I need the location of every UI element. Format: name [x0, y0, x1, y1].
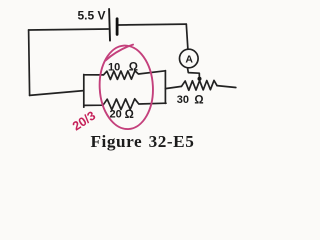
resistor R1 10 ohm (top branch) [84, 71, 165, 80]
paper background [0, 0, 270, 160]
wire 30-ohm tail [217, 86, 236, 88]
svg-text:5.5 V: 5.5 V [78, 9, 106, 23]
wire right lead from box [165, 86, 181, 88]
wire left lead to box [30, 91, 84, 96]
annotation pink tail crossing at top [106, 45, 134, 61]
svg-text:30: 30 [177, 94, 189, 106]
wire box left edge [83, 75, 85, 108]
wire top-left horizontal [29, 29, 109, 30]
svg-text:Figure 32-E5: Figure 32-E5 [91, 132, 195, 151]
svg-text:Ω: Ω [194, 94, 203, 106]
battery B1 short thick plate [116, 19, 119, 35]
wire corner down to ammeter [186, 24, 188, 49]
wire ammeter to junction [188, 68, 200, 79]
svg-text:10: 10 [108, 61, 120, 73]
svg-text:A: A [185, 53, 193, 65]
resistor R3 30 ohm [182, 80, 218, 90]
junction dot [198, 77, 202, 81]
wire battery to top-right corner [118, 23, 186, 26]
svg-text:20: 20 [110, 109, 122, 121]
svg-text:Ω: Ω [129, 61, 138, 73]
resistor R2 20 ohm (bottom branch) [84, 99, 166, 110]
wire left vertical [29, 30, 30, 95]
annotation pink ellipse around parallel resistors [98, 44, 156, 130]
wire box right edge [164, 71, 166, 104]
battery B1 long plate [108, 9, 111, 41]
svg-text:Ω: Ω [125, 109, 134, 121]
ammeter A1 circle [180, 49, 199, 68]
